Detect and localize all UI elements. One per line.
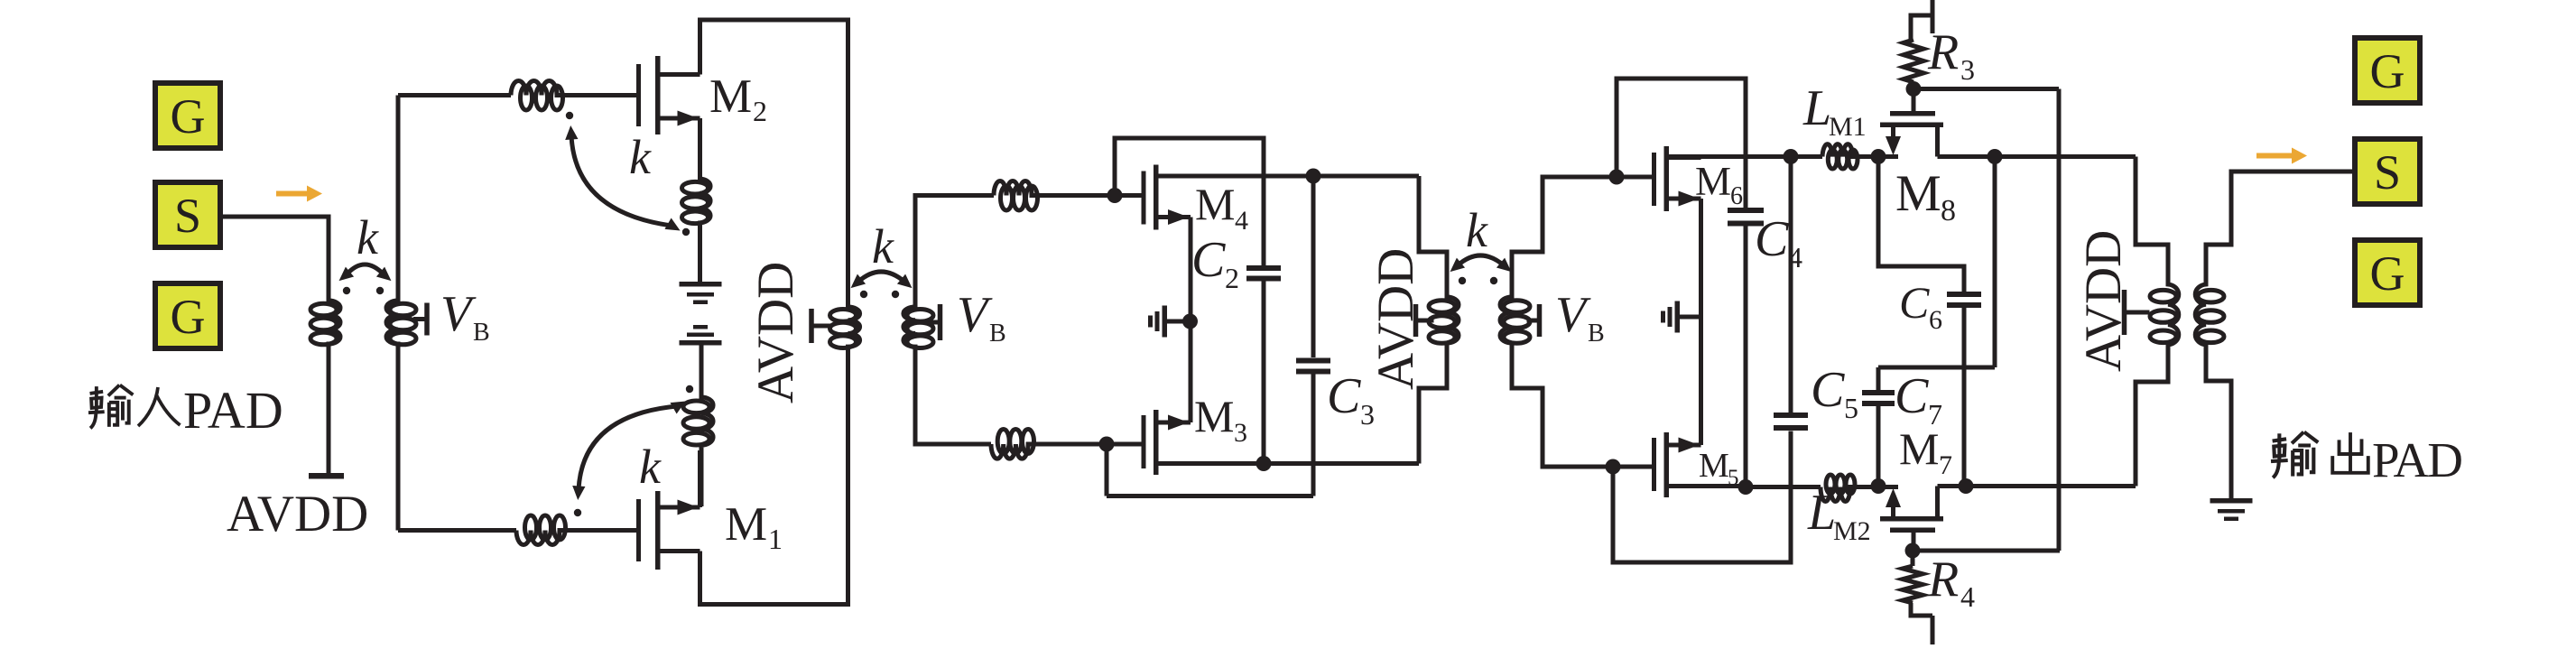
svg-text:M: M <box>1195 179 1235 229</box>
svg-text:6: 6 <box>1929 305 1942 335</box>
svg-text:1: 1 <box>768 523 783 555</box>
svg-text:AVDD: AVDD <box>747 262 804 403</box>
svg-text:B: B <box>989 320 1006 348</box>
svg-text:G: G <box>2370 246 2405 301</box>
svg-text:B: B <box>1588 320 1605 348</box>
svg-text:PAD: PAD <box>2372 432 2461 487</box>
svg-text:k: k <box>629 130 652 184</box>
svg-text:6: 6 <box>1730 182 1743 210</box>
svg-text:5: 5 <box>1728 466 1739 490</box>
svg-text:7: 7 <box>1928 398 1942 431</box>
svg-text:V: V <box>957 287 993 343</box>
svg-text:G: G <box>2370 44 2405 98</box>
svg-text:B: B <box>473 319 490 347</box>
svg-text:3: 3 <box>1360 398 1375 431</box>
svg-text:4: 4 <box>1788 241 1802 274</box>
svg-text:G: G <box>171 89 206 144</box>
svg-text:C: C <box>1899 277 1930 328</box>
svg-text:M1: M1 <box>1829 112 1867 142</box>
svg-text:M: M <box>1194 391 1234 441</box>
svg-text:V: V <box>440 286 477 342</box>
svg-text:M: M <box>709 70 752 123</box>
svg-text:V: V <box>1555 287 1591 343</box>
svg-text:k: k <box>639 440 662 494</box>
svg-text:3: 3 <box>1234 418 1247 448</box>
svg-text:5: 5 <box>1844 392 1858 424</box>
svg-text:C: C <box>1811 362 1845 418</box>
svg-text:3: 3 <box>1960 53 1975 86</box>
svg-text:C: C <box>1755 211 1789 267</box>
svg-text:7: 7 <box>1939 450 1952 480</box>
svg-text:M: M <box>1699 447 1729 485</box>
svg-text:M2: M2 <box>1833 516 1871 546</box>
svg-text:k: k <box>357 210 379 264</box>
svg-text:4: 4 <box>1235 206 1248 236</box>
svg-text:R: R <box>1927 24 1959 80</box>
svg-text:8: 8 <box>1941 194 1956 227</box>
svg-text:2: 2 <box>753 95 767 127</box>
svg-text:C: C <box>1895 368 1929 424</box>
svg-text:4: 4 <box>1960 580 1975 613</box>
svg-text:AVDD: AVDD <box>227 486 368 542</box>
svg-text:M: M <box>1695 159 1731 204</box>
svg-text:S: S <box>174 189 201 243</box>
svg-text:C: C <box>1191 232 1226 288</box>
svg-text:AVDD: AVDD <box>2075 230 2132 372</box>
svg-text:L: L <box>1802 80 1831 136</box>
svg-text:PAD: PAD <box>183 381 283 440</box>
svg-text:M: M <box>725 498 767 551</box>
svg-text:L: L <box>1807 485 1836 541</box>
svg-text:G: G <box>171 290 206 344</box>
svg-text:AVDD: AVDD <box>1367 248 1424 390</box>
svg-text:R: R <box>1927 552 1959 607</box>
svg-text:M: M <box>1895 165 1941 222</box>
svg-text:S: S <box>2374 145 2401 199</box>
svg-text:M: M <box>1899 423 1939 474</box>
svg-text:k: k <box>1466 203 1488 257</box>
svg-text:C: C <box>1327 368 1361 424</box>
svg-text:2: 2 <box>1225 262 1239 294</box>
svg-text:k: k <box>872 219 894 274</box>
